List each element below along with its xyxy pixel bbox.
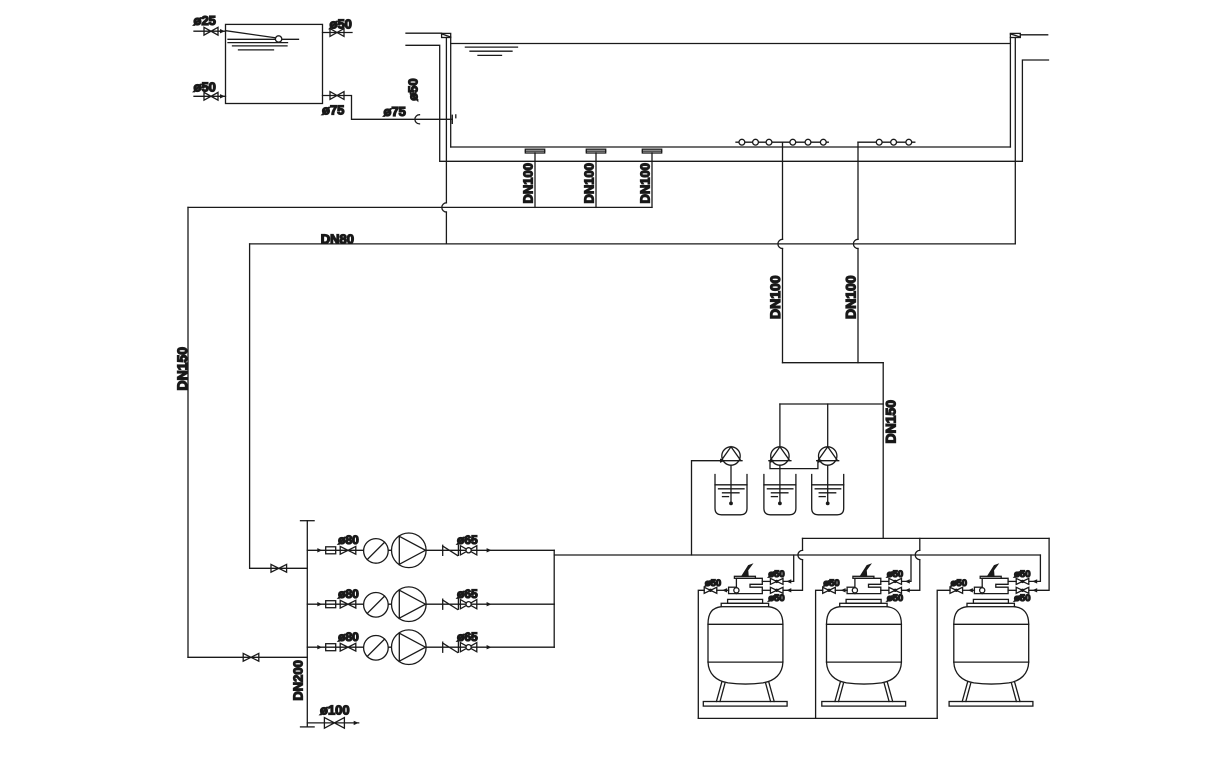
wire: filter 3 backwash line — [937, 590, 950, 718]
wire: riser header — [783, 362, 884, 364]
pipe jump arc over DN80 line — [778, 239, 783, 248]
water level symbol line 2 — [470, 50, 512, 52]
pump branch row 1 (pump P1) — [307, 533, 554, 568]
drain flow arrow — [354, 721, 359, 725]
main drain 3 — [642, 149, 661, 153]
water level symbol line 3 — [239, 49, 274, 51]
flow arrow filter 2 outlet valve — [905, 588, 910, 592]
wire: dosing pump 1 discharge — [692, 461, 722, 555]
svg-text:ø25: ø25 — [194, 13, 216, 28]
wire: filter 3 outlet drop — [1029, 538, 1049, 590]
svg-text:DN80: DN80 — [321, 231, 354, 246]
inlet nozzle A5 — [805, 139, 811, 145]
water level symbol line 2 — [233, 45, 288, 47]
wire: DN150 main to pump header — [188, 656, 307, 658]
wire: dosing pumps 2-3 suction link — [770, 461, 818, 469]
wire: riser DN100 left — [782, 142, 784, 363]
header bottom tick — [301, 726, 315, 728]
valve on DN80 drop — [271, 564, 287, 572]
pool water surface — [451, 43, 1011, 45]
flow arrow dosing pump 1 — [720, 459, 725, 463]
flow arrow filter 1 inlet — [786, 579, 791, 583]
wire: drain collector to suction main — [188, 206, 652, 208]
inlet nozzle A6 — [820, 139, 826, 145]
sand filter F3 — [949, 565, 1033, 707]
wire: filter 1 outlet drop — [783, 538, 802, 590]
wire: filter 3 inlet drop — [1029, 555, 1040, 581]
water level symbol line 3 — [478, 54, 502, 56]
inlet nozzle A1 — [739, 139, 745, 145]
wire: gutter stub top right — [1020, 34, 1047, 36]
dosing pump unit 2 with tank — [764, 447, 796, 515]
svg-text:ø75: ø75 — [322, 102, 344, 117]
wire: DN80 gutter main — [250, 243, 1016, 245]
wire: drain branch DN200 header — [307, 722, 358, 724]
svg-text:DN150: DN150 — [883, 400, 899, 444]
flow arrow dosing pump 3 — [818, 459, 823, 463]
wire: filter 2 backwash line — [816, 590, 823, 718]
pump branch row 2 (pump P2) — [307, 587, 554, 622]
pipe jump arc filter 1 outlet over inlet manifold — [798, 550, 803, 559]
float valve arm — [227, 31, 276, 38]
wire: drain 1 downpipe DN100 — [534, 153, 536, 208]
wire: bottom-left pipe — [194, 95, 226, 97]
skimmer gutter left — [442, 33, 451, 37]
flow arrow into tank — [220, 29, 225, 33]
wire: nozzle manifold A — [736, 141, 828, 143]
wire: filter 1 backwash line — [698, 590, 704, 718]
valve on DN150 main — [243, 653, 259, 661]
wire: DN200 suction header — [306, 521, 308, 727]
wall inlet fitting tick — [452, 115, 456, 123]
wire: filter 1 inlet drop — [783, 555, 793, 581]
svg-text:ø50: ø50 — [405, 78, 420, 100]
wire: drain 2 downpipe DN100 — [595, 153, 597, 208]
water level symbol line 1 — [228, 42, 288, 44]
flow arrow filter 3 outlet valve — [1032, 588, 1037, 592]
wire: tank outlet to pool supply — [323, 96, 453, 120]
dosing pump unit 3 with tank — [812, 447, 844, 515]
svg-text:ø50: ø50 — [194, 79, 216, 94]
inlet nozzle B2 — [891, 139, 897, 145]
flow arrow filter 2 inlet — [905, 579, 910, 583]
wire: dosing injection header — [780, 403, 883, 405]
svg-text:DN200: DN200 — [290, 660, 305, 700]
pool outer shell — [406, 45, 1049, 161]
main drain 2 — [586, 149, 605, 153]
wire: DN80 drop to pump header — [250, 244, 308, 568]
flow arrow dosing pump 2 — [770, 459, 775, 463]
wire: right gutter downpipe — [1014, 38, 1016, 244]
wire: filter 2 outlet drop — [902, 538, 920, 590]
svg-text:DN100: DN100 — [638, 163, 653, 203]
wire: nozzle manifold B — [858, 141, 915, 143]
skimmer gutter right — [1010, 33, 1020, 37]
valve diameter 100 — [324, 718, 344, 729]
inlet nozzle A3 — [766, 139, 772, 145]
skimmer gutter right diagonal — [1010, 34, 1020, 37]
svg-text:ø50: ø50 — [330, 16, 352, 31]
pool floor — [451, 146, 1011, 148]
valve diameter 50 lower left — [204, 92, 218, 100]
inlet nozzle B3 — [906, 139, 912, 145]
wire: filter 2 inlet drop — [902, 555, 911, 581]
wire: DN150 return riser — [882, 363, 884, 539]
inlet nozzle B1 — [876, 139, 882, 145]
svg-text:ø75: ø75 — [384, 104, 406, 119]
pool inner wall left — [450, 38, 452, 148]
header top tick — [301, 520, 315, 522]
sand filter F2 — [822, 565, 906, 707]
wire: dosing pump 3 riser — [827, 404, 829, 447]
pipe jump arc at drain collector — [442, 203, 447, 212]
svg-text:DN100: DN100 — [521, 163, 536, 203]
dosing pump unit 1 with tank — [715, 447, 747, 515]
pipe jump arc over DN80 line — [853, 239, 858, 248]
svg-text:DN150: DN150 — [174, 347, 190, 391]
wire: filtered water manifold DN150 — [803, 537, 1050, 539]
wire: backwash drain collector — [698, 717, 937, 719]
pipe jump arc filter 2 outlet over inlet manifold — [915, 550, 920, 559]
valve diameter 50 upper right — [330, 29, 344, 37]
flow arrow into tank — [220, 94, 225, 98]
svg-text:DN100: DN100 — [582, 163, 597, 203]
wire: DN150 suction main vertical — [187, 207, 189, 657]
pipe continuation arc — [415, 115, 420, 124]
balance tank shell — [226, 24, 323, 103]
wire: dosing pump 2 riser — [779, 404, 781, 447]
tank water surface — [228, 38, 299, 40]
pool inner wall right — [1009, 38, 1011, 148]
wire: riser DN100 right — [857, 142, 859, 363]
skimmer gutter left diagonal — [442, 34, 451, 37]
valve diameter 75 — [330, 92, 344, 100]
flow arrow filter 3 inlet — [1032, 579, 1037, 583]
water level symbol line 1 — [465, 46, 517, 48]
svg-text:DN100: DN100 — [843, 275, 859, 319]
wire: make-up inlet pipe — [194, 30, 226, 32]
pump branch row 3 (pump P3) — [307, 630, 554, 665]
float ball — [275, 36, 281, 42]
wire: overflow pipe top right — [323, 32, 353, 34]
inlet nozzle A4 — [790, 139, 796, 145]
wire: left gutter downpipe — [445, 38, 447, 244]
svg-text:DN100: DN100 — [767, 275, 783, 319]
inlet nozzle A2 — [753, 139, 759, 145]
flow arrow filter 1 outlet valve — [786, 588, 791, 592]
wire: pump discharge manifold to filters — [554, 554, 1040, 556]
wire: drain 3 downpipe DN100 — [651, 153, 653, 208]
main drain 1 — [525, 149, 544, 153]
wire: pump discharge collector — [553, 550, 555, 647]
svg-text:ø100: ø100 — [320, 702, 350, 717]
sand filter F1 — [703, 565, 787, 707]
wire: gutter stub top left — [406, 32, 442, 34]
valve diameter 25 — [204, 27, 218, 35]
